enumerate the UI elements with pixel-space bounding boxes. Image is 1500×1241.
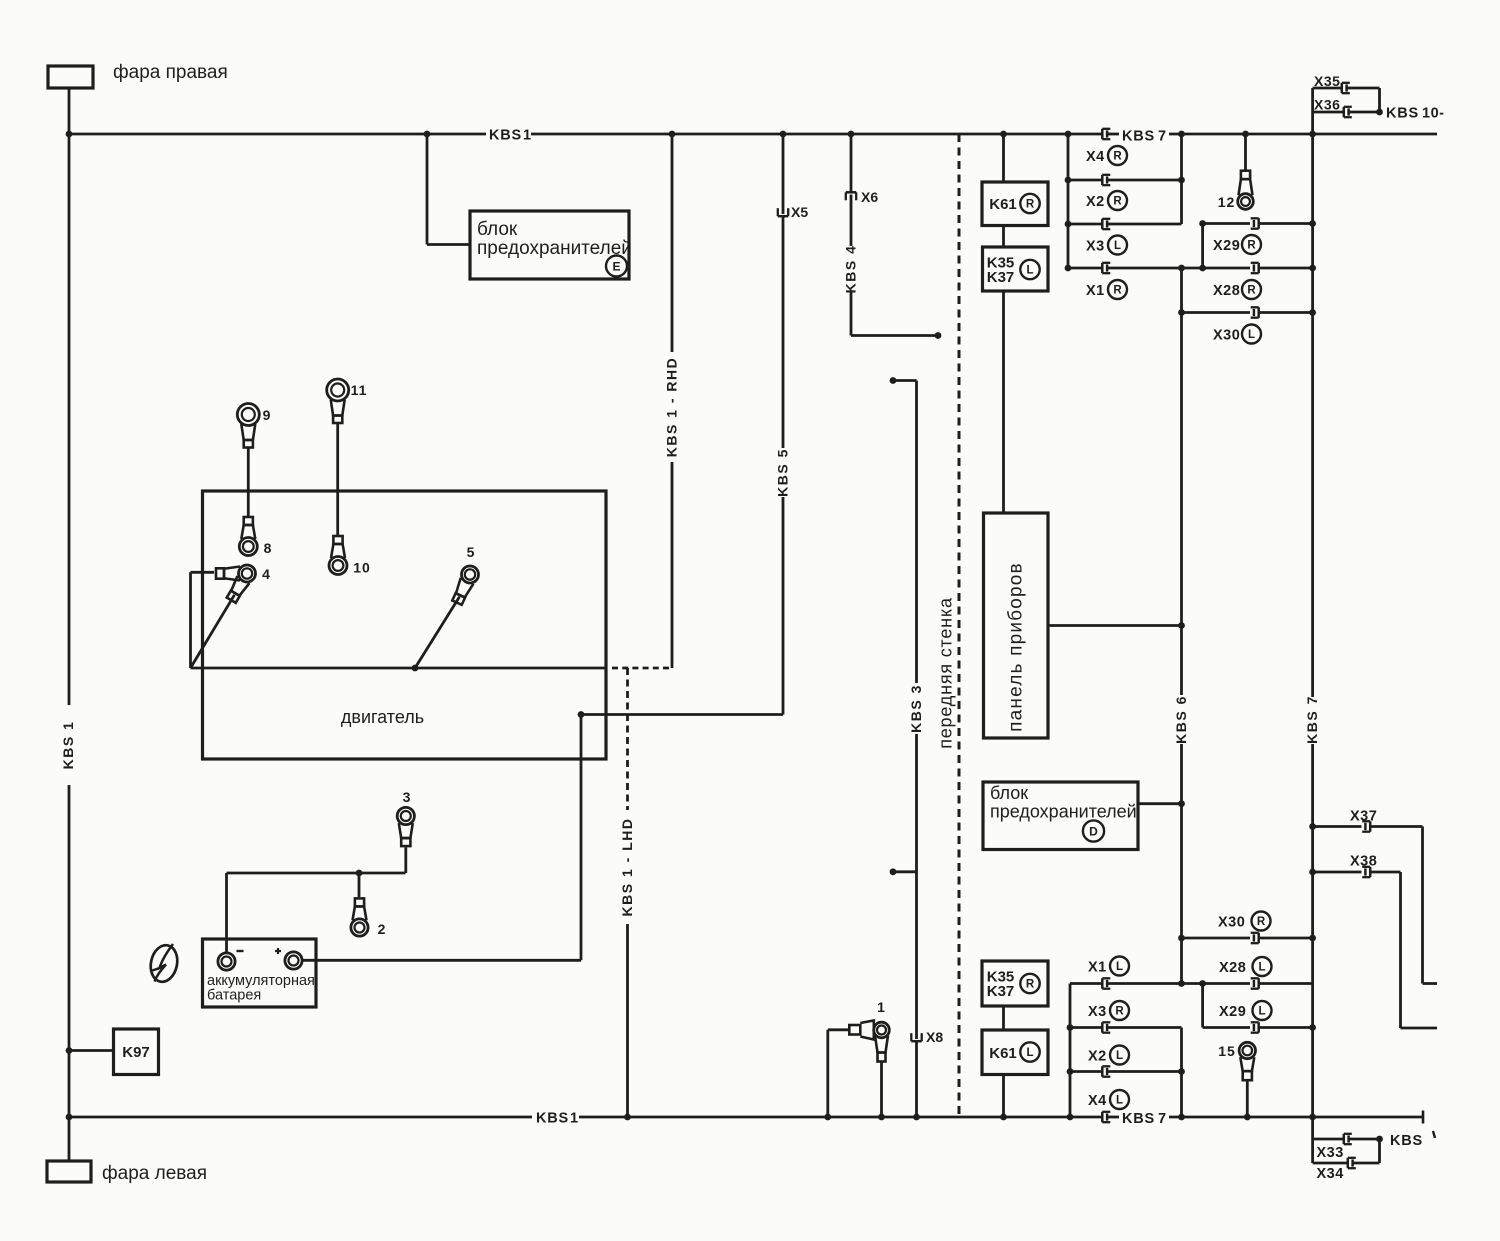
svg-text:X2: X2 [1086, 194, 1105, 210]
svg-text:фара правая: фара правая [113, 62, 228, 83]
svg-text:R: R [1247, 240, 1256, 252]
svg-text:KBS: KBS [1386, 106, 1419, 122]
svg-text:K37: K37 [987, 269, 1015, 286]
svg-text:X1: X1 [1086, 283, 1105, 299]
svg-text:KBS 4: KBS 4 [843, 245, 859, 294]
svg-text:KBS: KBS [536, 1111, 569, 1127]
svg-text:панель приборов: панель приборов [1006, 562, 1027, 732]
svg-text:X30: X30 [1213, 328, 1240, 344]
svg-text:KBS 1 - LHD: KBS 1 - LHD [619, 818, 635, 917]
svg-text:R: R [1247, 285, 1256, 297]
svg-text:R: R [1113, 285, 1122, 297]
svg-text:R: R [1113, 196, 1122, 208]
svg-text:X3: X3 [1086, 239, 1105, 255]
svg-text:7: 7 [1158, 129, 1166, 145]
svg-text:R: R [1026, 199, 1035, 211]
svg-text:7: 7 [1158, 1111, 1166, 1127]
svg-text:2: 2 [378, 921, 386, 937]
svg-text:1: 1 [877, 999, 885, 1015]
svg-text:K61: K61 [989, 196, 1017, 213]
svg-text:X1: X1 [1088, 960, 1107, 976]
svg-text:KBS: KBS [1122, 129, 1155, 145]
svg-text:9: 9 [263, 407, 271, 423]
svg-text:X30: X30 [1218, 915, 1245, 931]
svg-text:R: R [1257, 916, 1266, 928]
svg-text:блок: блок [990, 783, 1028, 803]
svg-text:KBS: KBS [1390, 1133, 1423, 1149]
svg-text:12: 12 [1218, 194, 1236, 210]
svg-text:батарея: батарея [207, 988, 261, 1004]
svg-text:L: L [1258, 1006, 1265, 1018]
svg-text:X3: X3 [1088, 1004, 1107, 1020]
svg-text:X4: X4 [1086, 149, 1105, 165]
svg-text:11: 11 [351, 382, 368, 398]
svg-text:KBS 3: KBS 3 [908, 684, 924, 733]
svg-text:передняя стенка: передняя стенка [936, 597, 956, 749]
svg-text:предохранителей: предохранителей [477, 238, 632, 259]
svg-text:L: L [1114, 240, 1121, 252]
svg-text:5: 5 [467, 544, 475, 560]
svg-text:фара левая: фара левая [102, 1163, 207, 1184]
svg-text:X2: X2 [1088, 1049, 1107, 1065]
svg-text:X28: X28 [1219, 960, 1246, 976]
svg-text:X36: X36 [1314, 97, 1340, 113]
svg-text:KBS 1: KBS 1 [60, 721, 76, 770]
svg-text:X29: X29 [1213, 238, 1240, 254]
svg-text:D: D [1089, 824, 1098, 838]
svg-text:K37: K37 [987, 983, 1015, 1000]
svg-text:X5: X5 [791, 204, 808, 220]
svg-text:X38: X38 [1350, 854, 1377, 870]
svg-text:L: L [1116, 961, 1123, 973]
svg-text:X29: X29 [1219, 1004, 1246, 1020]
svg-text:X35: X35 [1314, 73, 1340, 89]
svg-text:1: 1 [523, 128, 531, 144]
svg-text:10: 10 [353, 560, 371, 576]
svg-text:X4: X4 [1088, 1093, 1107, 1109]
svg-text:KBS 6: KBS 6 [1173, 695, 1189, 744]
svg-text:предохранителей: предохранителей [990, 802, 1137, 822]
svg-text:KBS 7: KBS 7 [1304, 695, 1320, 744]
svg-text:X37: X37 [1350, 809, 1377, 825]
svg-text:3: 3 [403, 789, 411, 805]
svg-text:4: 4 [262, 566, 270, 582]
svg-text:K61: K61 [989, 1045, 1017, 1062]
svg-text:X34: X34 [1317, 1166, 1344, 1182]
svg-text:KBS: KBS [1122, 1111, 1155, 1127]
svg-text:блок: блок [477, 219, 518, 240]
svg-text:L: L [1258, 962, 1265, 974]
svg-text:R: R [1113, 151, 1122, 163]
svg-text:X6: X6 [861, 189, 878, 205]
svg-text:L: L [1116, 1095, 1123, 1107]
svg-text:L: L [1248, 329, 1255, 341]
svg-text:X33: X33 [1317, 1145, 1344, 1161]
svg-text:8: 8 [264, 540, 272, 556]
svg-text:X8: X8 [926, 1029, 943, 1045]
svg-text:двигатель: двигатель [341, 707, 424, 727]
svg-text:KBS 5: KBS 5 [775, 448, 791, 497]
svg-text:15: 15 [1218, 1043, 1236, 1059]
svg-text:L: L [1026, 1047, 1033, 1059]
svg-text:L: L [1026, 265, 1033, 277]
svg-text:E: E [612, 259, 620, 273]
svg-text:L: L [1116, 1050, 1123, 1062]
svg-text:K97: K97 [122, 1044, 150, 1061]
svg-text:R: R [1115, 1006, 1124, 1018]
svg-text:R: R [1026, 979, 1035, 991]
svg-text:KBS: KBS [489, 128, 522, 144]
svg-text:10-: 10- [1422, 106, 1444, 122]
svg-text:KBS 1 - RHD: KBS 1 - RHD [664, 357, 680, 458]
svg-text:X28: X28 [1213, 283, 1240, 299]
svg-text:1: 1 [570, 1111, 578, 1127]
